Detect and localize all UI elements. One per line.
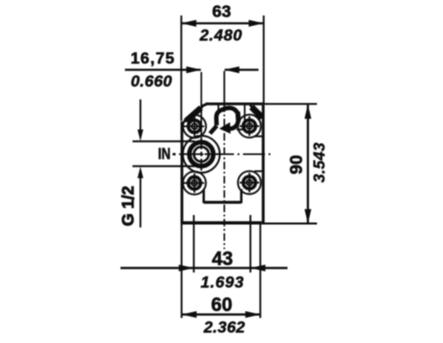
body top-left rounded corner and chamfer bbox=[185, 105, 207, 122]
bottom notch left vertical bbox=[202, 189, 204, 203]
body right edge bbox=[262, 105, 265, 223]
top-right corner filled wedge bbox=[252, 107, 263, 118]
svg-text:G 1/2: G 1/2 bbox=[120, 186, 138, 226]
IN port thread ring bbox=[189, 142, 213, 166]
svg-text:1.693: 1.693 bbox=[201, 275, 245, 292]
dim 16.75: left arrowhead (points left) with tail bbox=[225, 69, 259, 71]
bolt hole bottom-right bbox=[240, 173, 260, 193]
dim 60: right arrowhead bbox=[245, 311, 260, 318]
dim 43: left arrowhead pointing right bbox=[179, 265, 194, 272]
bottom face extension line to 90 dim bbox=[262, 223, 317, 225]
svg-text:2.480: 2.480 bbox=[199, 28, 243, 45]
horizontal centerline (dash-dot) bbox=[179, 153, 271, 155]
svg-text:16,75: 16,75 bbox=[131, 51, 176, 68]
bottom notch right vertical bbox=[240, 189, 242, 203]
svg-text:63: 63 bbox=[212, 2, 231, 21]
svg-text:3.543: 3.543 bbox=[312, 142, 329, 182]
G1/2: vertical leader with down arrow bbox=[139, 99, 141, 130]
top-right chamfer bbox=[250, 105, 263, 118]
boss circle around top-left bolt bbox=[183, 115, 206, 138]
IN port crosshair vertical bbox=[200, 137, 202, 170]
vertical centerline of IN port bbox=[200, 72, 202, 137]
dim 43: extension line left bbox=[193, 215, 195, 273]
boss circle around bottom-left bolt bbox=[183, 172, 206, 195]
dim 63: dimension line bbox=[181, 22, 263, 24]
svg-text:43: 43 bbox=[212, 249, 233, 270]
dim 90: dimension line bbox=[307, 105, 309, 223]
dim 90: bottom arrowhead bbox=[305, 209, 312, 224]
body top edge bbox=[206, 103, 264, 106]
svg-text:2.362: 2.362 bbox=[203, 320, 246, 337]
svg-text:IN: IN bbox=[158, 146, 171, 163]
dim 90: top arrowhead bbox=[305, 104, 312, 119]
dim 60: left arrowhead bbox=[182, 311, 197, 318]
bottom notch bottom line bbox=[204, 201, 242, 204]
dim 63: left arrowhead bbox=[181, 20, 196, 27]
boss circle around top-right bolt bbox=[238, 115, 261, 138]
body top edge extension to 90 dim bbox=[263, 103, 317, 105]
dim 60: extension line left bbox=[181, 224, 183, 318]
pocket stub top-right bbox=[254, 135, 263, 137]
dim 63: extension line right bbox=[263, 16, 265, 105]
shaft pad right vertical bbox=[244, 104, 246, 130]
G1/2 port tangent line top bbox=[133, 140, 196, 142]
dim 63: right arrowhead bbox=[249, 20, 264, 27]
pocket stub right lower bbox=[254, 170, 263, 172]
dim 60: dimension line bbox=[182, 313, 261, 315]
boss circle around bottom-right bolt bbox=[238, 171, 261, 194]
IN port crosshair horizontal bbox=[184, 153, 219, 155]
G1/2 port tangent line bottom bbox=[133, 165, 196, 167]
svg-text:90: 90 bbox=[286, 155, 306, 175]
dim 63: extension line left bbox=[180, 16, 182, 122]
dim 43: extension line right bbox=[249, 215, 251, 273]
dim 43: dimension line bbox=[121, 267, 288, 269]
dim 16.75: right arrowhead (points right) bbox=[186, 66, 201, 73]
bolt hole top-left bbox=[183, 117, 205, 137]
shaft pad left vertical bbox=[217, 104, 219, 110]
G1/2: vertical leader with up arrow bbox=[139, 178, 141, 228]
shaft pad bottom line bbox=[237, 129, 245, 131]
svg-text:60: 60 bbox=[211, 295, 232, 316]
centerline dot right of IN text bbox=[173, 153, 176, 155]
dim 60: extension line right bbox=[259, 224, 261, 318]
vertical centerline of body (dash-dot) bbox=[223, 71, 225, 104]
bolt hole bottom-left bbox=[183, 173, 205, 193]
body left edge bbox=[181, 122, 184, 223]
body bottom mounting face bbox=[181, 221, 262, 224]
bolt hole top-right bbox=[240, 116, 260, 136]
rotation direction symbol bbox=[210, 108, 238, 134]
top-left corner filled wedge bbox=[186, 108, 201, 121]
IN port boss circle bbox=[183, 136, 220, 173]
dim 43: right arrowhead pointing left bbox=[250, 265, 265, 272]
svg-text:0.660: 0.660 bbox=[131, 74, 173, 91]
IN port inner circle bbox=[194, 147, 209, 162]
dim 16.75: dimension line with underline of text bbox=[125, 69, 201, 71]
